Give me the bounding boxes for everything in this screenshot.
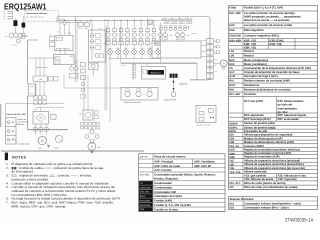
svg-text:K3R: E1HC: K3R: E1HC	[270, 39, 284, 42]
wire power loop to A3P	[121, 63, 213, 79]
svg-text:2TW02035-1A: 2TW02035-1A	[285, 218, 314, 224]
contactor coils row K1M-K2R	[108, 47, 161, 59]
svg-text:S1PH: S1PH	[54, 146, 59, 149]
solenoid units row	[160, 26, 190, 31]
fan coil box with 3 motors	[121, 88, 158, 105]
legend table	[229, 6, 318, 190]
svg-text:Reactor: Reactor	[244, 54, 254, 57]
fuses on bus F3U F4U	[78, 20, 89, 26]
relay contact on bus K1M aux	[148, 20, 162, 24]
wire main bus phase	[58, 19, 148, 21]
svg-text:BRN: marrón, GRY: gris, ORG: n: BRN: marrón, GRY: gris, ORG: naranja.	[12, 204, 67, 208]
svg-text:K1R~K5R: K1R~K5R	[229, 39, 241, 42]
svg-text:Fusible (250 V y 6,3 A (T), A1: Fusible (250 V y 6,3 A (T), A1P)	[244, 6, 283, 9]
power supply lines L1 L2 L3 N	[3, 10, 12, 21]
svg-text:E1HC: E1HC	[122, 65, 126, 67]
svg-text:R4T: Desincrustador: R4T: Desincrustador	[278, 100, 304, 103]
svg-text:X4A: X4A	[215, 59, 218, 61]
svg-text:Regleta de terminales (A3P): Regleta de terminales (A3P)	[244, 156, 280, 159]
PCB box A1P	[54, 55, 75, 65]
wires A2P to bus	[60, 20, 69, 35]
wires rectifier stubs	[6, 104, 65, 119]
svg-text:Y4S: inyección: Y4S: inyección	[278, 178, 297, 181]
svg-text:A3P~5P: A3P~5P	[140, 155, 148, 158]
svg-text:X1A, 2A: X1A, 2A	[229, 145, 239, 148]
svg-text:Calentador del cárter: Calentador del cárter	[154, 194, 183, 198]
PCB box A3P	[152, 41, 201, 58]
wires terminal row to mid bus	[108, 44, 148, 46]
ground symbol compressor	[90, 150, 93, 153]
svg-text:Fusible (A4P): Fusible (A4P)	[154, 199, 172, 203]
svg-text:Z1C~Z7C: Z1C~Z7C	[229, 182, 240, 185]
terminal row under contacts	[106, 41, 160, 45]
wires A1P to reactor	[36, 58, 49, 76]
svg-text:K2R: K2R	[156, 48, 159, 50]
svg-text:R6T: acumulador: R6T: acumulador	[278, 118, 300, 121]
svg-text:Válvula de expansión electróni: Válvula de expansión electrónica (de iny…	[244, 167, 305, 170]
svg-text:de hielo del: de hielo del	[278, 104, 293, 107]
svg-text:R50: R50	[229, 89, 234, 92]
svg-text:Motor (ventilador): Motor (ventilador)	[244, 63, 267, 66]
wires box to ladder	[201, 41, 206, 57]
svg-text:Alimentación eléctrica: Alimentación eléctrica	[26, 12, 47, 15]
svg-text:Válvula para dispositivo de se: Válvula para dispositivo de seguridad	[244, 134, 293, 137]
svg-text:Fusible (T, 5 A, 250 V) (A3P): Fusible (T, 5 A, 250 V) (A3P)	[154, 203, 191, 207]
compressor motor M1C	[38, 136, 46, 150]
svg-text:Módulo de alimentación (A1P): Módulo de alimentación (A1P)	[244, 137, 282, 140]
svg-text:M1C: M1C	[229, 59, 235, 62]
svg-text:U: U	[84, 121, 85, 123]
svg-text:A5P: Filtro de ruido: A5P: Filtro de ruido	[154, 164, 180, 168]
misc pin number labels	[34, 28, 217, 127]
svg-text:Bobina de reactancia: Bobina de reactancia	[124, 101, 141, 104]
svg-text:F1U (A4P): F1U (A4P)	[140, 199, 150, 202]
main switch (black body)	[14, 18, 18, 26]
connector pin row on bus	[162, 19, 192, 24]
svg-text:(Nota 5): (Nota 5)	[180, 82, 188, 85]
coil bottom connector rects	[160, 37, 185, 42]
relay K11M with coil	[89, 63, 99, 76]
svg-text:E1HC: E1HC	[140, 195, 146, 198]
filter box L4R	[79, 110, 99, 120]
solenoid coils Y1E Y3E	[159, 31, 198, 37]
svg-text:Prueba, Reajuste): Prueba, Reajuste)	[154, 176, 178, 180]
earth leakage breaker cluster	[5, 26, 28, 47]
svg-text:F401,F403: F401,F403	[140, 204, 151, 207]
wire second feed	[58, 22, 78, 24]
svg-text:Y3S: Válvula de 4 vías: Y3S: Válvula de 4 vías	[278, 174, 307, 177]
svg-text:Trans. (F1·F2): Trans. (F1·F2)	[164, 99, 177, 102]
labels F1U F2U	[79, 27, 88, 30]
svg-text:3.: 3.	[6, 174, 9, 178]
svg-text:L1R: L1R	[229, 50, 234, 53]
svg-text:DS1, DS2: DS1, DS2	[140, 191, 150, 194]
svg-text:NOTAS: NOTAS	[12, 156, 27, 160]
svg-text:ERQ125AW1: ERQ125AW1	[4, 1, 47, 11]
wire bus into fan box	[64, 75, 121, 88]
svg-text:Y1E: Y1E	[229, 160, 234, 163]
power supply box Alimentacion electrica	[25, 11, 59, 22]
svg-text:M: M	[91, 146, 93, 149]
svg-text:R3T: Descarga (M1C): R3T: Descarga (M1C)	[244, 118, 271, 121]
fan motor M1F	[213, 60, 227, 71]
svg-text:K5R: Y2S: K5R: Y2S	[244, 46, 256, 49]
svg-text:detección de avería.......se e: detección de avería.......se enciende	[244, 19, 290, 22]
connector stubs to right	[213, 40, 219, 54]
svg-text:Sensor CT: Sensor CT	[151, 72, 162, 75]
svg-text:Sensor de presión (alta): Sensor de presión (alta)	[244, 122, 275, 125]
svg-text:S1NPL: S1NPL	[229, 127, 238, 130]
svg-text:Termistor: Termistor	[244, 93, 256, 96]
notes list	[6, 162, 121, 208]
svg-text:Conmutación de la alimentación: Conmutación de la alimentación eléctrica…	[244, 67, 311, 70]
diode cluster	[85, 130, 99, 144]
svg-text:HAP: HAP	[229, 24, 235, 27]
svg-text:5.: 5.	[6, 185, 9, 189]
svg-text:F6U: F6U	[105, 43, 108, 45]
svg-text:K1R: Y1S: K1R: Y1S	[244, 39, 256, 42]
svg-text:Regleta de terminales (suminis: Regleta de terminales (suministro eléctr…	[244, 148, 300, 151]
svg-text:F5U: F5U	[99, 28, 102, 30]
svg-text:Relé magnético: Relé magnético	[244, 29, 264, 32]
svg-text:Resistencia: Resistencia	[244, 84, 259, 87]
separator line above notes	[1, 150, 144, 152]
svg-text:Y1S: gas caliente: Y1S: gas caliente	[244, 174, 267, 177]
selector switch box S1S/S2S	[6, 118, 17, 144]
svg-text:K4R: K4R	[140, 48, 143, 50]
svg-text:C461,C462: C461,C462	[140, 186, 152, 189]
svg-text:Selector Frío/Calor: Selector Frío/Calor	[230, 198, 254, 201]
svg-text:Módulo de alimentación eléctri: Módulo de alimentación eléctrica (A3P)	[244, 141, 294, 144]
svg-text:K2: K2	[50, 35, 52, 37]
switch box left edge with connector notch	[28, 40, 68, 130]
svg-text:X2A: X2A	[215, 47, 218, 49]
svg-text:L2R: L2R	[229, 55, 234, 58]
outer switch-box outline top/right	[57, 17, 210, 81]
svg-text:Filtro de ruido (con absorbedo: Filtro de ruido (con absorbedor de ondas…	[244, 186, 298, 189]
svg-text:V1R: V1R	[229, 138, 234, 141]
svg-text:Reactor: Reactor	[244, 50, 254, 53]
svg-text:Filtro de ruido (núcleo de fer: Filtro de ruido (núcleo de ferrita)	[244, 182, 286, 185]
svg-text:K1R: K1R	[132, 48, 135, 50]
svg-text:Q1C: Q1C	[229, 71, 234, 74]
svg-text:M1F: M1F	[222, 67, 225, 70]
PCB box A2P	[50, 32, 73, 51]
svg-text:K5R: K5R	[148, 48, 151, 50]
svg-text:M1F: M1F	[229, 63, 235, 66]
svg-text:Interruptor de fuga a tierra: Interruptor de fuga a tierra	[244, 75, 278, 78]
labels K1M K2M K3M	[108, 48, 159, 50]
compressor motor M1C	[88, 142, 102, 150]
svg-text:V2R: V2R	[229, 141, 234, 144]
svg-text:R2T: aspiración: R2T: aspiración	[244, 114, 264, 117]
svg-text:Q1DI: Q1DI	[229, 75, 235, 78]
paper fold mark left margin	[0, 104, 2, 127]
svg-text:S2V: S2V	[229, 134, 234, 137]
svg-text:X1M: X1M	[229, 149, 234, 152]
svg-text:K1M,K2M: K1M,K2M	[229, 34, 240, 37]
connector ladder X-terminals	[206, 39, 213, 79]
terminal rows under filter	[81, 122, 100, 129]
wires reactor to terminal strip	[36, 82, 44, 96]
main double vertical wire	[75, 17, 77, 83]
svg-text:Conmutador selector (Frío – Ca: Conmutador selector (Frío – Calor)	[244, 207, 289, 210]
svg-text:7.: 7.	[6, 201, 9, 205]
svg-text:Válvula de expansión electróni: Válvula de expansión electrónica (subenf…	[244, 163, 304, 166]
svg-text:S2S: S2S	[229, 207, 234, 210]
svg-text:R31T: R31T	[229, 84, 236, 87]
svg-text:Sensor de presión (baja): Sensor de presión (baja)	[244, 126, 275, 129]
svg-text:X3A: X3A	[215, 53, 218, 55]
bridge rectifier V1	[33, 112, 56, 125]
svg-text:Motor (compresor): Motor (compresor)	[244, 59, 268, 62]
svg-text:Conector (M1F): Conector (M1F)	[244, 145, 264, 148]
phase coils under rectifier	[33, 124, 48, 135]
svg-text:S1NPH: S1NPH	[229, 122, 238, 125]
connector column right of A1P	[81, 63, 86, 99]
svg-text:Conexión obra: Conexión obra	[18, 143, 30, 146]
svg-text:Z1F: Z1F	[229, 186, 234, 189]
svg-text:H1P~H8P: H1P~H8P	[229, 12, 241, 15]
svg-text:K5R: Y4E: K5R: Y4E	[270, 43, 282, 46]
svg-text:S1S: S1S	[229, 203, 234, 206]
wire ladder column	[132, 63, 136, 80]
svg-text:F1MU: F1MU	[229, 7, 236, 10]
label conexion obra	[14, 138, 30, 146]
svg-text:R5T: tubería de líquido: R5T: tubería de líquido	[278, 114, 307, 117]
wires A2P to A1P	[60, 51, 65, 55]
svg-text:Fusible en la obra: Fusible en la obra	[154, 207, 178, 211]
svg-text:A8P: ADC I/P: A8P: ADC I/P	[194, 164, 211, 168]
cool/heat selector table	[229, 197, 318, 210]
svg-text:R10: R10	[229, 80, 234, 83]
wires down to compressor	[84, 23, 161, 123]
svg-text:PS: PS	[229, 67, 233, 70]
svg-text:2.: 2.	[6, 166, 9, 170]
svg-text:Resistencia (limitadora de cor: Resistencia (limitadora de corriente)	[244, 88, 291, 91]
svg-text:eléctrica: eléctrica	[18, 123, 25, 126]
fuse box column	[89, 20, 106, 62]
svg-text:Válvula solenoide: Válvula solenoide	[244, 171, 267, 174]
transmission wiring arrows F1 F2	[164, 78, 188, 102]
svg-text:BS1~BS5: BS1~BS5	[140, 174, 150, 177]
svg-text:3N~, 380-415 V, 50 Hz: 3N~, 380-415 V, 50 Hz	[26, 15, 43, 18]
svg-text:Contactor magnético (M1C): Contactor magnético (M1C)	[244, 34, 279, 37]
svg-text:X6A: X6A	[215, 71, 218, 73]
fuse circle on feed wire	[59, 18, 67, 25]
terminal block X2M (dark)	[170, 74, 178, 78]
reactor L1R	[33, 76, 58, 82]
svg-text:Y1S~Y4S: Y1S~Y4S	[229, 171, 240, 174]
current sensor box A4P	[142, 67, 166, 80]
svg-text:Condensador: Condensador	[154, 181, 173, 185]
fuse block	[22, 16, 25, 27]
svg-text:K1M: K1M	[229, 29, 234, 32]
magnetic contactor poles K1M K2M row	[106, 20, 156, 41]
svg-text:FINL: FINL	[140, 208, 145, 211]
svg-text:Y2S: Retorno de aceite: Y2S: Retorno de aceite	[244, 178, 274, 181]
label cuadro conmutacion	[14, 118, 28, 127]
svg-text:Pieza de círculo interno: Pieza de círculo interno	[154, 155, 186, 159]
svg-text:K1: K1	[57, 32, 59, 34]
svg-text:Conmutador selector (ventilado: Conmutador selector (ventilador/frío – c…	[244, 202, 301, 205]
svg-text:X5A: X5A	[215, 65, 218, 67]
svg-text:Y2E: Y2E	[229, 163, 234, 166]
ground at M1C	[46, 143, 49, 147]
svg-text:Circuito de detección de inver: Circuito de detección de inversión de fa…	[244, 71, 300, 74]
svg-text:X3M: X3M	[229, 156, 234, 159]
terminal strip rows	[34, 96, 47, 104]
svg-text:intercambiador: intercambiador	[278, 107, 297, 110]
svg-text:X1A: X1A	[215, 41, 218, 43]
svg-text:L1R: L1R	[38, 78, 42, 81]
svg-text:Condensador: Condensador	[154, 186, 173, 190]
svg-text:A3P: Principal: A3P: Principal	[154, 159, 173, 163]
transformer pair below A1P	[69, 60, 78, 78]
svg-text:M: M	[223, 62, 225, 65]
svg-text:A6P: Ventilador: A6P: Ventilador	[194, 159, 216, 163]
connector labels X1A-X4A	[163, 16, 188, 19]
svg-text:R1T: aire (A1P): R1T: aire (A1P)	[244, 100, 263, 103]
DIP switch box BS1-BS5	[196, 106, 216, 123]
svg-text:Válvula de expansión electróni: Válvula de expansión electrónica (princi…	[244, 159, 300, 162]
notes heading bar	[5, 153, 8, 161]
pressure switch S1PH	[54, 135, 63, 149]
svg-text:V: V	[89, 121, 90, 123]
svg-text:Luz piloto (monitor de servici: Luz piloto (monitor de servicio verde)	[244, 24, 292, 27]
inverter parts table	[139, 154, 225, 212]
svg-text:Y3E: Y3E	[229, 167, 234, 170]
svg-text:Resistor (sensor de corriente): Resistor (sensor de corriente) (A4P)	[244, 79, 290, 82]
svg-text:K4R: Y1E: K4R: Y1E	[244, 43, 256, 46]
svg-text:R1T~R6T: R1T~R6T	[229, 93, 241, 96]
svg-text:Puesta de B1T, A2P: Puesta de B1T, A2P	[7, 113, 27, 116]
wire bus junction dots	[64, 20, 148, 21]
